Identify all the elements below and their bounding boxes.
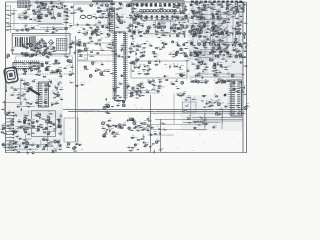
wire (220, 15, 222, 20)
inductor L577 (200, 12, 203, 15)
diode D543 (26, 150, 29, 154)
resistor R567 (243, 66, 248, 67)
diode D500 (159, 60, 160, 64)
resistor R575 (1, 107, 7, 110)
inductor L613 (242, 73, 245, 75)
capacitor C227 (99, 15, 103, 19)
inductor L624 (7, 124, 11, 127)
resistor R286 (46, 146, 51, 147)
resistor R173 (229, 8, 234, 11)
transistor Q436 (100, 72, 103, 75)
inductor L611 (175, 64, 179, 68)
transistor Q346 (214, 29, 216, 31)
diode D433 (140, 90, 142, 94)
inductor L551 (105, 104, 108, 107)
resistor R460 (118, 82, 123, 85)
diode D490 (228, 50, 230, 54)
inductor L593 (216, 31, 219, 34)
inductor L510 (36, 46, 40, 50)
capacitor C292 (137, 88, 142, 92)
capacitor C438 (135, 90, 139, 93)
capacitor C313 (58, 131, 63, 134)
capacitor C507 (113, 90, 117, 92)
resistor R219 (215, 112, 220, 115)
capacitor C474 (97, 20, 101, 24)
wire top-left vertical 2 (13, 8, 15, 30)
resistor R310 (57, 6, 62, 9)
capacitor C317 (113, 133, 117, 137)
net label text (179, 68, 183, 71)
resistor R221 (184, 97, 188, 100)
capacitor C206 (39, 5, 44, 9)
capacitor C323 (146, 124, 151, 128)
resistor R384 (49, 48, 53, 50)
wire top-left horizontal 2 (6, 29, 66, 31)
inductor L605 (25, 71, 27, 72)
resistor R224 (183, 110, 188, 113)
wire (34, 92, 37, 94)
resistor R562 (181, 72, 186, 75)
resistor R302 (140, 128, 145, 131)
capacitor C310 (20, 126, 24, 128)
diode D404 (40, 7, 41, 11)
capacitor C478 (155, 31, 159, 33)
capacitor C354 (239, 7, 243, 9)
capacitor C503 (154, 64, 158, 66)
capacitor C428 (120, 73, 124, 77)
capacitor C455 (126, 118, 130, 122)
border frame left (5, 2, 7, 153)
resistor R267 (53, 103, 58, 104)
diode D504 (217, 62, 220, 66)
resistor R128 (96, 27, 101, 30)
resistor R198 (232, 49, 237, 51)
diode D476 (217, 29, 219, 33)
resistor R156 (179, 28, 184, 29)
capacitor C468 (108, 6, 112, 10)
resistor R259 (17, 92, 22, 95)
diode D527 (234, 27, 236, 31)
capacitor C268 (223, 47, 227, 50)
capacitor C499 (22, 73, 26, 75)
capacitor C205 (46, 7, 52, 11)
inductor L656 (206, 81, 209, 82)
inductor L567 (28, 143, 31, 146)
capacitor C254 (200, 16, 204, 20)
capacitor C235 (135, 44, 139, 48)
capacitor C290 (145, 89, 149, 93)
capacitor C430 (180, 75, 184, 77)
inductor L560 (54, 94, 57, 95)
inductor L660 (58, 144, 61, 147)
capacitor C207 (39, 17, 43, 19)
capacitor C209 (51, 6, 55, 8)
capacitor C433 (239, 61, 243, 63)
capacitor C481 (203, 36, 207, 38)
diode D440 (20, 102, 23, 106)
wire (58, 28, 63, 30)
inductor L565 (39, 125, 43, 128)
coil L01 oval (80, 15, 85, 18)
resistor R374 (213, 25, 218, 26)
wire (47, 26, 49, 32)
resistor R319 (135, 12, 140, 15)
bottom-left box (31, 111, 55, 137)
inductor L580 (203, 3, 206, 6)
resistor R432 (211, 47, 216, 48)
resistor R549 (42, 49, 47, 52)
diode D487 (163, 43, 164, 47)
capacitor C443 (215, 80, 219, 83)
resistor R441 (51, 71, 56, 73)
transistor Q394 (182, 24, 184, 27)
capacitor C410 (161, 46, 165, 48)
resistor R202 (193, 55, 198, 57)
diode D420 (190, 32, 193, 36)
diode D435 (125, 85, 128, 90)
resistor R117 (7, 24, 12, 27)
inductor L638 (97, 5, 100, 8)
inductor L644 (31, 47, 34, 50)
net label text (36, 24, 39, 27)
diode D417 (240, 19, 243, 23)
inductor L620 (233, 88, 236, 89)
resistor R450 (204, 67, 208, 68)
diode D508 (205, 79, 207, 84)
resistor R236 (146, 65, 150, 66)
capacitor C248 (235, 6, 239, 10)
diode D434 (139, 84, 141, 89)
diode D421 (232, 32, 235, 36)
transistor Q487 (23, 122, 25, 124)
transistor Q409 (7, 54, 10, 57)
transistor Q366 (54, 140, 57, 144)
resistor R554 (195, 48, 199, 49)
resistor R178 (199, 9, 204, 12)
net label text (44, 3, 47, 6)
capacitor C517 (27, 118, 31, 121)
inductor L534 (205, 27, 210, 30)
resistor R550 (74, 42, 79, 45)
resistor R580 (131, 118, 136, 121)
resistor R449 (147, 67, 152, 70)
wire (60, 114, 62, 136)
resistor R321 (133, 8, 138, 9)
capacitor C519 (131, 118, 135, 122)
wire (46, 116, 48, 151)
resistor R336 (226, 9, 231, 12)
transistor Q375 (103, 134, 106, 137)
diode D432 (152, 79, 153, 83)
resistor R207 (211, 70, 216, 71)
net label text (94, 110, 97, 113)
resistor R337 (215, 12, 219, 15)
wire (193, 50, 195, 57)
inductor L555 (137, 84, 141, 87)
resistor R391 (43, 43, 48, 44)
diode D468 (194, 12, 198, 17)
resistor R364 (205, 21, 210, 24)
capacitor C456 (148, 132, 153, 136)
diode D401 (62, 2, 64, 7)
wire vertical x77 (76, 60, 78, 142)
resistor R555 (217, 47, 221, 48)
resistor R114 (22, 12, 27, 15)
transistor Q372 (115, 125, 120, 128)
resistor R325 (181, 2, 186, 4)
inductor L586 (133, 21, 137, 24)
resistor R411 (184, 40, 189, 43)
transistor Q395 (176, 34, 180, 37)
inductor L612 (224, 59, 227, 62)
inductor L659 (9, 140, 12, 143)
diode D409 (131, 35, 132, 39)
resistor R394 (78, 52, 83, 55)
resistor R444 (63, 66, 69, 69)
transistor Q360 (26, 82, 29, 85)
resistor R434 (226, 42, 231, 45)
resistor R104 (35, 12, 41, 15)
transistor Q367 (59, 144, 61, 146)
inductor L552 (117, 96, 122, 99)
capacitor C389 (28, 54, 34, 57)
transistor Q488 (47, 132, 49, 135)
resistor R470 (192, 79, 197, 82)
resistor R342 (239, 15, 244, 18)
resistor R177 (210, 18, 215, 19)
capacitor C283 (193, 127, 197, 129)
resistor R329 (195, 12, 200, 13)
resistor R552 (168, 52, 173, 55)
transistor Q327 (117, 16, 121, 19)
capacitor C276 (212, 62, 216, 66)
inductor L623 (2, 123, 5, 126)
capacitor C417 (235, 49, 239, 53)
resistor R545 (213, 24, 218, 27)
inductor L562 (59, 114, 62, 117)
resistor R512 (22, 138, 27, 141)
inductor L643 (239, 22, 243, 26)
wire tuner out (126, 17, 190, 19)
inductor L588 (156, 34, 158, 35)
wire (213, 29, 215, 36)
capacitor C322 (102, 134, 108, 138)
resistor R266 (59, 87, 64, 90)
transistor Q352 (213, 66, 216, 69)
transistor Q426 (212, 50, 215, 53)
resistor R111 (23, 10, 27, 13)
diode D480 (36, 51, 37, 55)
capacitor C335 (111, 10, 115, 12)
capacitor C446 (7, 110, 11, 114)
resistor R485 (240, 111, 245, 114)
EEPROM block IC01 hatched (18, 1, 31, 8)
resistor R464 (139, 83, 144, 84)
resistor R201 (216, 46, 221, 49)
resistor R148 (135, 98, 140, 99)
transistor Q437 (148, 60, 151, 63)
capacitor C337 (132, 3, 136, 5)
resistor R462 (141, 85, 146, 88)
capacitor C488 (64, 55, 69, 58)
capacitor C392 (25, 41, 30, 45)
resistor R205 (228, 54, 234, 57)
capacitor C226 (93, 29, 97, 31)
diode D542 (25, 145, 28, 149)
transistor Q309 (37, 14, 40, 16)
resistor R401 (111, 50, 117, 52)
resistor R164 (206, 19, 211, 22)
wire (210, 28, 212, 43)
transistor Q350 (218, 47, 220, 49)
inductor L646 (47, 46, 50, 49)
wire (221, 112, 223, 129)
resistor R272 (48, 111, 53, 114)
diode D451 (24, 4, 27, 9)
inductor L532 (230, 6, 233, 9)
inductor L520 (132, 38, 134, 39)
transistor Q392 (108, 34, 111, 37)
transistor Q429 (235, 55, 240, 58)
transistor Q413 (53, 47, 59, 49)
capacitor C395 (46, 57, 50, 59)
transistor Q482 (221, 79, 224, 82)
capacitor C215 (41, 38, 45, 42)
resistor R180 (228, 2, 232, 5)
transistor Q340 (185, 15, 187, 17)
capacitor C394 (36, 49, 41, 52)
inductor L517 (118, 19, 121, 22)
resistor R307 (130, 137, 135, 138)
capacitor C357 (94, 32, 98, 34)
resistor R340 (212, 7, 217, 10)
transistor Q373 (121, 126, 124, 129)
net label text (136, 128, 138, 131)
resistor R397 (100, 48, 105, 51)
inductor L634 (45, 138, 48, 141)
resistor R420 (195, 51, 200, 54)
wire (220, 36, 226, 38)
capacitor C444 (223, 80, 227, 82)
capacitor C493 (141, 55, 145, 57)
capacitor C216 (40, 38, 44, 41)
diode D454 (67, 10, 70, 15)
resistor R412 (182, 51, 187, 54)
capacitor C328 (55, 4, 59, 8)
transistor Q458 (133, 122, 138, 125)
haze zone bottom-left (13, 110, 63, 152)
connector CN2 stubs (64, 8, 69, 23)
diode D484 (121, 48, 123, 53)
capacitor C480 (193, 30, 197, 34)
resistor R275 (34, 113, 40, 116)
diode D406 (24, 27, 27, 31)
wire vertical top-right (226, 3, 228, 58)
transistor Q443 (45, 88, 48, 91)
wire (20, 125, 31, 127)
wire (204, 50, 206, 54)
resistor R355 (161, 32, 165, 35)
resistor R505 (147, 120, 152, 121)
resistor R167 (193, 14, 198, 16)
resistor R488 (3, 133, 8, 134)
diode D446 (19, 144, 23, 148)
resistor R381 (32, 53, 37, 56)
diode D429 (212, 58, 216, 62)
resistor R216 (183, 109, 187, 112)
capacitor C518 (107, 125, 111, 127)
resistor R214 (185, 58, 190, 61)
resistor R328 (183, 8, 187, 9)
wire (222, 109, 224, 124)
wire (161, 20, 163, 24)
capacitor C470 (178, 2, 182, 5)
resistor R143 (116, 18, 121, 21)
service barcode box (12, 34, 70, 55)
capacitor C299 (31, 79, 36, 82)
resistor R571 (170, 82, 175, 85)
tuner coil chain (140, 9, 177, 12)
inductor L507 (38, 46, 42, 49)
resistor R157 (175, 16, 180, 18)
diode D444 (48, 116, 51, 120)
inductor L547 (188, 122, 191, 123)
resistor R538 (182, 28, 187, 29)
net label text (84, 57, 88, 60)
capacitor C320 (122, 122, 126, 126)
wire (199, 50, 201, 59)
capacitor C437 (130, 92, 134, 94)
wire right bus2 (190, 76, 243, 78)
resistor R566 (217, 70, 222, 73)
transistor Q439 (180, 73, 183, 76)
capacitor C376 (197, 33, 202, 36)
capacitor C247 (220, 21, 225, 25)
wire vertical x150 (150, 95, 152, 153)
capacitor C345 (199, 16, 204, 19)
transistor Q473 (180, 48, 182, 50)
resistor R251 (157, 77, 162, 80)
wire (25, 135, 27, 146)
resistor R354 (161, 33, 166, 36)
wire (196, 19, 229, 21)
diode D415 (228, 17, 233, 21)
resistor R557 (242, 42, 247, 45)
transistor Q434 (67, 60, 69, 62)
inductor L619 (218, 79, 221, 82)
resistor R358 (170, 27, 175, 29)
capacitor C304 (29, 102, 34, 105)
resistor R508 (7, 146, 11, 149)
transistor Q321 (97, 10, 99, 12)
transistor Q425 (219, 50, 222, 53)
small box mid-left (77, 52, 87, 61)
capacitor C377 (211, 21, 216, 25)
diode D540 (239, 80, 241, 84)
inductor L549 (142, 64, 146, 67)
diode D448 (55, 148, 58, 153)
diode D481 (37, 41, 40, 46)
inductor L585 (138, 30, 142, 33)
capacitor C404 (117, 54, 121, 57)
transistor Q465 (65, 27, 71, 30)
capacitor C375 (202, 24, 206, 28)
wire (193, 121, 199, 123)
resistor R209 (195, 66, 200, 69)
capacitor C372 (199, 25, 203, 29)
resistor R227 (187, 96, 192, 99)
inductor L525 (210, 11, 214, 14)
